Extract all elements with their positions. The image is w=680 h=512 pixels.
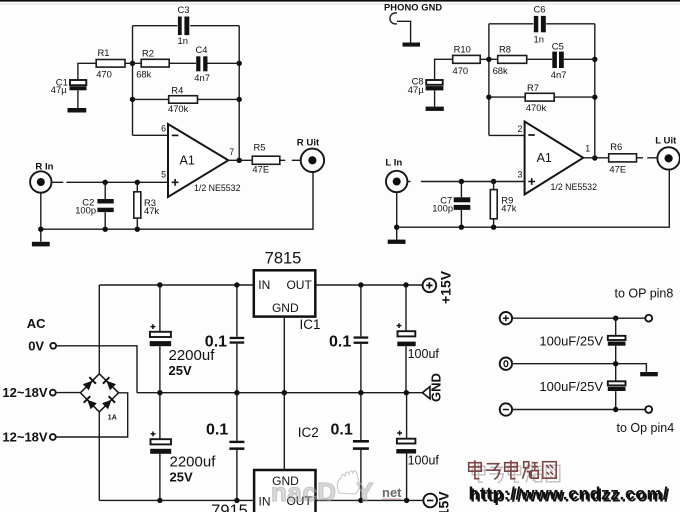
svg-text:1n: 1n: [178, 35, 188, 46]
node: L In bottom junction: [394, 225, 399, 230]
node: -rail 100uf: [404, 498, 409, 503]
svg-text:4n7: 4n7: [194, 72, 210, 83]
wire: gnd rail: [137, 392, 422, 394]
svg-text:47µ: 47µ: [408, 84, 424, 95]
op-amp A1 (right): [517, 122, 597, 195]
ground (C8): [426, 107, 444, 111]
svg-text:2200uf: 2200uf: [170, 453, 217, 470]
regulator IC2 7915: [211, 425, 319, 512]
svg-text:470k: 470k: [168, 103, 189, 114]
svg-text:4n7: 4n7: [551, 69, 567, 80]
terminal -15V: [423, 491, 451, 512]
terminal -: [500, 403, 512, 415]
top border line: [0, 0, 680, 2]
svg-text:25V: 25V: [170, 469, 193, 484]
svg-text:R1: R1: [98, 47, 110, 58]
wire: center vertical: [615, 318, 617, 409]
node: -rail junction: [613, 407, 618, 412]
svg-text:0.1: 0.1: [205, 334, 227, 351]
wire: L In to non-inverting input: [407, 181, 524, 183]
capacitor C6: [534, 4, 546, 45]
node: gnd rail 2200uf: [157, 390, 162, 395]
svg-text:100p: 100p: [75, 205, 96, 216]
wire: -rail left of 7915: [99, 499, 254, 501]
wire: left feedback vertical (right ch): [488, 24, 490, 136]
wire: IC1 gnd pin: [283, 317, 285, 393]
wire: - rail: [512, 409, 645, 411]
svg-text:R4: R4: [171, 84, 183, 95]
svg-text:12~18V: 12~18V: [2, 430, 48, 445]
svg-text:+15V: +15V: [438, 270, 454, 304]
node: R9 top junction: [491, 179, 496, 184]
wire: R4 row right: [198, 98, 240, 100]
wire: R2 to C4: [169, 62, 196, 64]
svg-text:A1: A1: [537, 151, 552, 165]
svg-text:0V: 0V: [28, 339, 44, 354]
node: gnd rail 0.1#2: [358, 390, 363, 395]
svg-text:R6: R6: [610, 141, 622, 152]
node: C5 right junction: [592, 57, 597, 62]
node: R3 top junction: [135, 180, 140, 185]
svg-text:470k: 470k: [526, 102, 547, 113]
wire: L Uit down to bottom rail: [397, 170, 670, 228]
op-amp A1 (left): [161, 124, 240, 197]
svg-text:100uF/25V: 100uF/25V: [539, 334, 603, 349]
wire: C8 to ground: [434, 90, 436, 106]
svg-text:GND: GND: [272, 301, 299, 315]
node: -rail 0.1#4: [358, 498, 363, 503]
wire: C1 to ground: [77, 90, 79, 108]
resistor R9: [490, 182, 516, 228]
svg-text:R10: R10: [454, 44, 471, 55]
ground (decoupling): [640, 372, 658, 376]
svg-text:AC: AC: [27, 316, 46, 331]
svg-text:7915: 7915: [211, 502, 248, 512]
svg-text:C4: C4: [196, 44, 208, 55]
capacitor C8 47u electrolytic: [408, 76, 444, 95]
wire: inverting input: [133, 134, 169, 136]
node: op-amp output junction (right ch): [592, 155, 597, 160]
diode D3 (bottom-left): [84, 396, 97, 409]
svg-text:47k: 47k: [501, 203, 516, 214]
svg-text:6: 6: [161, 124, 166, 134]
wire: R Uit down to bottom rail: [41, 172, 313, 229]
capacitor C4: [194, 44, 210, 83]
svg-text:2: 2: [517, 124, 522, 134]
node: R4 right junction: [237, 97, 242, 102]
svg-text:R2: R2: [142, 48, 154, 59]
node: 0.1#1 top: [234, 282, 239, 287]
wire: 0V to gnd rail: [56, 346, 137, 393]
svg-text:GND: GND: [429, 373, 444, 402]
terminal 12~18V lower: [50, 434, 56, 440]
capacitor 0.1 #3: [206, 393, 244, 501]
node: R1/R2 junction: [130, 61, 135, 66]
capacitor 0.1 #2: [329, 285, 368, 393]
node: R7 left junction: [486, 94, 491, 99]
svg-text:5: 5: [161, 170, 166, 180]
node: R3 bottom junction: [135, 227, 140, 232]
node: C4 right junction: [237, 61, 242, 66]
svg-text:R8: R8: [499, 44, 511, 55]
wire: upper 12~18V to bridge: [56, 392, 81, 394]
resistor R3: [134, 182, 160, 229]
diode D4 (bottom-right): [102, 396, 115, 409]
resistor R6: [609, 141, 637, 174]
svg-text:L Uit: L Uit: [655, 135, 677, 146]
wire: C1 to R1: [78, 63, 96, 79]
svg-text:nacD: nacD: [271, 477, 337, 507]
wire: output to R6: [583, 157, 609, 159]
regulator IC1 7815: [254, 250, 321, 333]
resistor R1: [96, 47, 125, 79]
svg-text:100uf: 100uf: [408, 454, 440, 468]
node: R In bottom junction: [38, 227, 43, 232]
svg-text:100uF/25V: 100uF/25V: [539, 379, 603, 394]
svg-text:L In: L In: [385, 158, 402, 169]
terminal 12~18V upper: [50, 390, 56, 396]
svg-text:7815: 7815: [265, 250, 302, 268]
node: 0.1#2 top: [358, 282, 363, 287]
capacitor 2200uf/25V lower: [150, 393, 216, 501]
wire: R In to non-inverting input: [52, 181, 169, 183]
diode D1 (top-left): [83, 377, 96, 390]
resistor R4: [168, 84, 198, 114]
wire: R1 to node: [125, 62, 141, 64]
svg-text:0.1: 0.1: [206, 422, 228, 439]
svg-text:3: 3: [517, 169, 522, 179]
svg-text:68k: 68k: [493, 65, 508, 76]
wire: C4 to right vertical: [208, 62, 240, 64]
wire: R7 row right: [554, 96, 595, 98]
resistor R7: [525, 82, 554, 113]
wire: top feedback horizontal (through C3): [133, 25, 240, 27]
node: -rail 0.1#3: [234, 498, 239, 503]
connector L Uit: [655, 135, 680, 169]
node: R9 bottom junction: [491, 225, 496, 230]
terminal 0: [500, 358, 512, 370]
wire: 0 rail to ground: [512, 364, 646, 372]
node: R7 right junction: [592, 94, 597, 99]
svg-text:IN: IN: [258, 278, 270, 292]
node: 2200uf1 top: [157, 282, 162, 287]
wire: R6 to L Uit: [637, 157, 658, 159]
wire: R In ground drop: [40, 193, 42, 242]
node: gnd rail 100uf: [404, 390, 409, 395]
svg-text:7: 7: [229, 147, 234, 157]
wire: C8 to R10: [435, 59, 453, 79]
svg-text:IC1: IC1: [300, 317, 321, 332]
svg-text:C5: C5: [552, 40, 564, 51]
node: -rail 2200uf: [157, 498, 162, 503]
resistor R10: [453, 44, 481, 77]
ground (C1): [68, 108, 87, 113]
terminal +15V: [423, 270, 454, 304]
svg-text:68k: 68k: [136, 68, 151, 79]
svg-text:to Op pin4: to Op pin4: [617, 421, 675, 435]
terminal pin8 open: [645, 315, 652, 322]
wire: inverting input (right ch): [489, 134, 525, 136]
ground (L input): [388, 240, 406, 244]
wire: top feedback horizontal (through C6): [489, 23, 595, 25]
node: 0 rail junction: [613, 361, 618, 366]
node: +rail junction: [613, 316, 618, 321]
svg-text:IC2: IC2: [298, 425, 319, 440]
svg-text:1A: 1A: [108, 414, 117, 421]
svg-text:C6: C6: [534, 4, 546, 15]
svg-text:47µ: 47µ: [51, 84, 67, 95]
node: C7 bottom junction: [459, 225, 464, 230]
wire: +rail right of 7815: [315, 284, 422, 286]
bridge rectifier B1: [80, 374, 118, 422]
connector R In: [30, 162, 54, 193]
terminal 0V: [50, 343, 56, 349]
resistor R2: [136, 48, 169, 80]
capacitor C2 100p: [75, 182, 114, 229]
svg-text:IN: IN: [259, 495, 271, 509]
node: C2 bottom junction: [103, 227, 108, 232]
svg-text:to OP pin8: to OP pin8: [615, 287, 674, 301]
connector R Uit: [297, 137, 324, 172]
wire: bridge + riser: [98, 285, 100, 374]
node: R4 left junction: [130, 97, 135, 102]
capacitor C1 47u electrolytic: [51, 76, 87, 95]
svg-text:0.1: 0.1: [329, 334, 351, 351]
wire: -rail right of 7915: [316, 499, 424, 501]
svg-text:1/2 NE5532: 1/2 NE5532: [551, 182, 598, 192]
wire: + rail: [512, 317, 645, 319]
wire: R10 to R8: [480, 58, 498, 60]
wire: R7 row left: [489, 96, 525, 98]
svg-text:-15V: -15V: [436, 491, 452, 512]
watermark haoDIY.net overlay: [271, 471, 402, 507]
svg-text:0.1: 0.1: [331, 422, 353, 439]
svg-text:47E: 47E: [609, 163, 626, 174]
svg-text:R5: R5: [254, 142, 266, 153]
wire: R8 to C5: [527, 58, 553, 60]
svg-text:12~18V: 12~18V: [2, 385, 48, 400]
capacitor 100uF/25V upper: [539, 334, 625, 349]
capacitor C5: [551, 40, 567, 80]
svg-text:R In: R In: [35, 162, 53, 173]
svg-text:http://www.cndzz.com/: http://www.cndzz.com/: [469, 484, 669, 504]
node: gnd rail IC pins: [282, 390, 287, 395]
ground (phono): [403, 43, 421, 47]
wire: L In ground drop: [396, 192, 398, 239]
svg-text:net: net: [382, 485, 402, 500]
resistor R5: [252, 142, 279, 175]
terminal +: [500, 312, 512, 324]
svg-text:1n: 1n: [534, 34, 544, 45]
phono gnd arc symbol: [390, 13, 397, 24]
node: R10/R8 junction: [486, 57, 491, 62]
resistor R8: [493, 44, 527, 77]
svg-text:47k: 47k: [144, 205, 159, 216]
wire: left feedback vertical: [132, 26, 134, 136]
svg-text:100p: 100p: [432, 202, 453, 213]
wire: right feedback vertical (right ch): [594, 24, 596, 158]
node: 100uf1 top: [403, 282, 408, 287]
diode D2 (top-right): [103, 377, 116, 390]
capacitor 100uf lower: [396, 393, 439, 501]
wire: output to R5: [228, 159, 252, 161]
capacitor 2200uf/25V upper: [150, 285, 216, 393]
svg-text:A1: A1: [180, 154, 195, 168]
wire: bridge - riser: [98, 412, 100, 501]
connector L In: [385, 158, 407, 193]
wire: R5 to R Uit: [280, 159, 301, 161]
ground arrow GND: [422, 373, 443, 402]
ground (input): [32, 242, 50, 247]
node: op-amp output junction: [237, 158, 242, 163]
svg-text:PHONO GND: PHONO GND: [384, 3, 442, 13]
terminal pin4 open: [645, 406, 652, 413]
svg-text:R Uit: R Uit: [297, 137, 320, 148]
capacitor C3: [178, 4, 190, 46]
node: gnd rail 0.1: [234, 390, 239, 395]
svg-text:47E: 47E: [252, 163, 269, 174]
wire: C5 to right vertical: [564, 58, 595, 60]
svg-text:100uf: 100uf: [408, 347, 440, 361]
svg-text:470: 470: [453, 65, 469, 76]
node: C7 top junction: [459, 179, 464, 184]
wire: right feedback vertical: [238, 26, 240, 161]
svg-text:OUT: OUT: [286, 278, 312, 292]
wire: +rail left of 7815: [99, 284, 254, 286]
capacitor 100uf upper: [397, 285, 440, 393]
wire: phono gnd: [397, 21, 411, 42]
wire: IC2 gnd pin: [283, 393, 285, 470]
svg-text:C3: C3: [178, 4, 190, 15]
node: C2 top junction: [103, 180, 108, 185]
capacitor C7 100p: [432, 182, 470, 228]
capacitor 0.1 #4: [331, 393, 369, 501]
capacitor 0.1 #1: [205, 285, 244, 393]
svg-text:25V: 25V: [169, 363, 192, 378]
svg-text:1/2 NE5532: 1/2 NE5532: [194, 183, 241, 193]
capacitor 100uF/25V lower: [539, 379, 625, 394]
svg-text:R7: R7: [527, 82, 539, 93]
wire: R4 row left: [133, 98, 169, 100]
svg-text:1: 1: [585, 143, 590, 153]
wire: lower 12~18V to bridge: [56, 393, 128, 437]
svg-text:470: 470: [96, 68, 112, 79]
site name 电子电路网 (drawn glyphs): [472, 464, 560, 483]
